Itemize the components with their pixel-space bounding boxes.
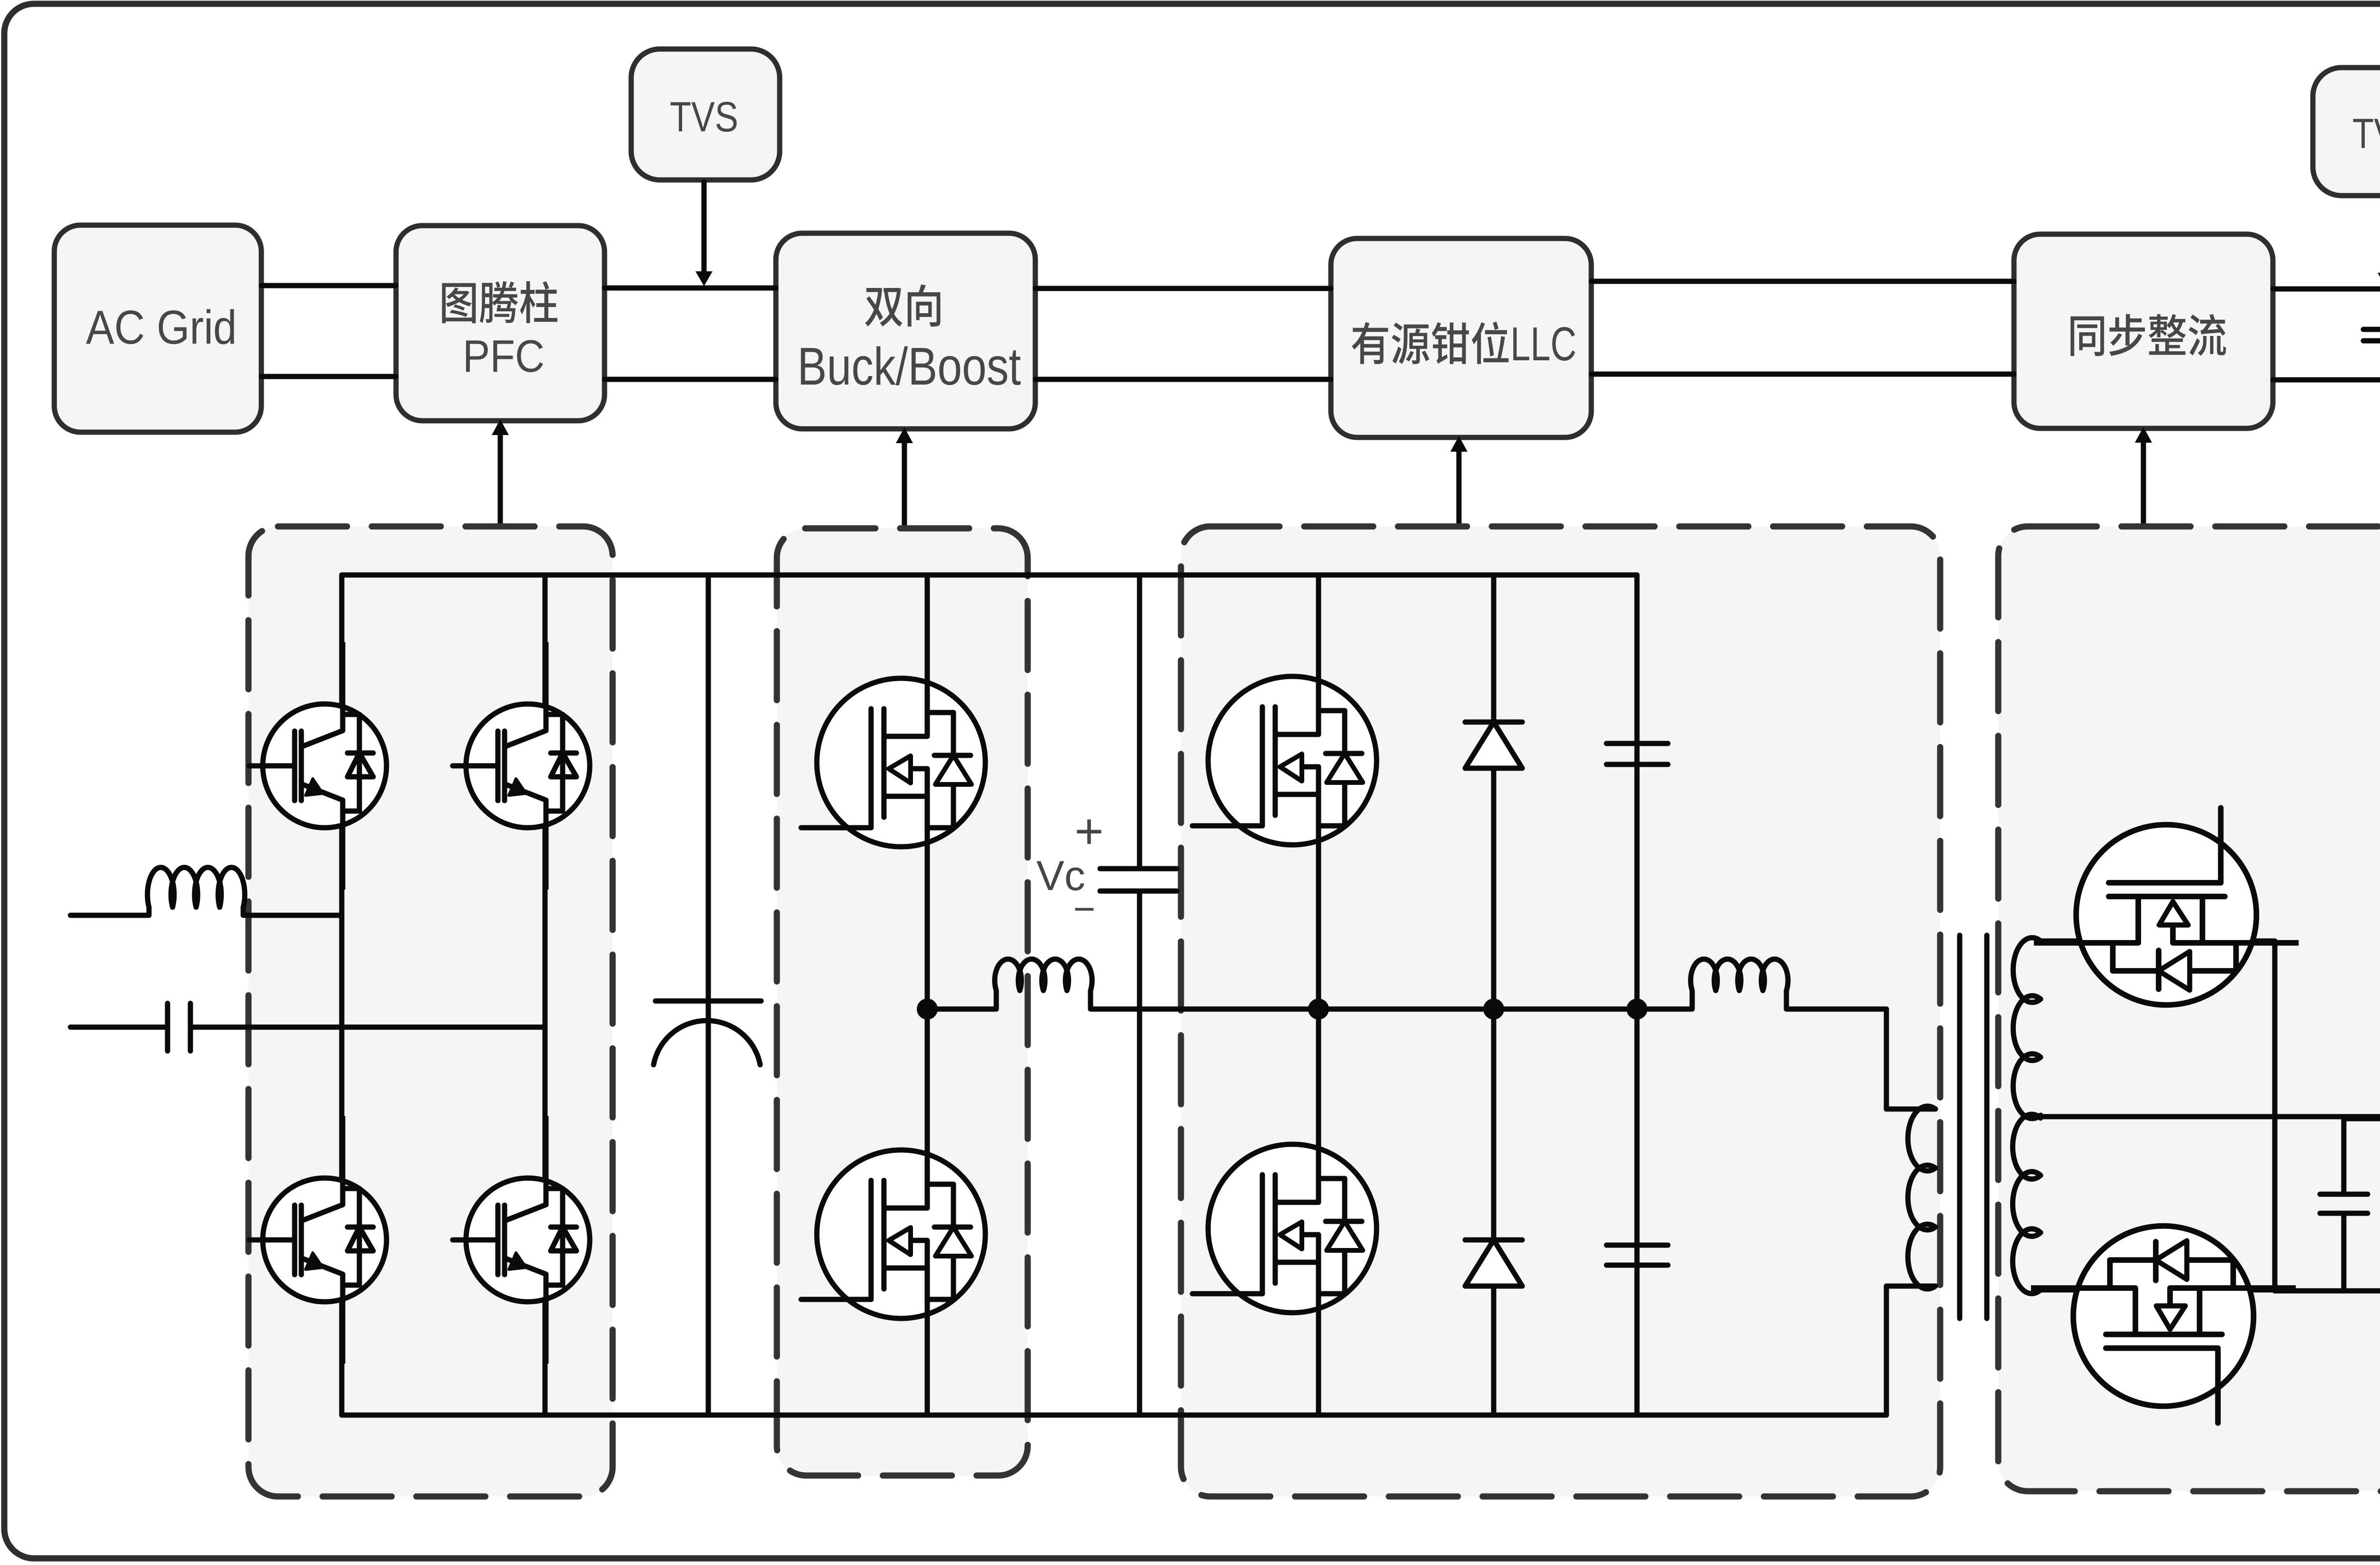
- transformer secondary winding top: [2013, 938, 2041, 1119]
- arrow TVS1 to bus: [702, 180, 707, 273]
- wire LLC switch leg: [1316, 575, 1321, 1415]
- svg-text:+: +: [1074, 803, 1103, 859]
- arrow LLC detail to block: [1457, 450, 1462, 529]
- wire PFC to Buck/Boost top: [605, 286, 776, 291]
- capacitor AC input C1: [70, 1025, 168, 1030]
- wire Buck/Boost to LLC bottom: [1035, 377, 1331, 382]
- wire AC Grid to PFC bottom: [261, 374, 396, 379]
- transistor MOSFET Q9 (SR top-left): [2034, 808, 2299, 1005]
- dashed box totem-pole PFC detail: [248, 526, 613, 1496]
- wire PFC right leg: [543, 575, 548, 1415]
- diode clamp D2: [1465, 1238, 1522, 1243]
- capacitor clamp C2: [1635, 575, 1640, 743]
- arrow sync detail to block: [2141, 441, 2146, 527]
- block TVS 2: [2313, 68, 2380, 196]
- svg-text:TVS: TVS: [2352, 109, 2380, 157]
- label 有源钳位LLC: [1352, 322, 1508, 364]
- wire AC Grid to PFC top: [261, 283, 396, 288]
- block active clamp LLC: [1331, 238, 1591, 437]
- wire M1 drain drop: [2272, 941, 2278, 1291]
- wire secondary mid rail: [2041, 1114, 2380, 1119]
- dashed box Buck/Boost detail: [777, 528, 1028, 1476]
- block synchronous rectifier: [2014, 234, 2273, 428]
- wire primary return: [1886, 1284, 1935, 1289]
- transistor IGBT Q4 (PFC bottom-right): [453, 1116, 590, 1364]
- wire secondary bottom to M2: [2041, 1288, 2275, 1293]
- svg-text:Buck/Boost: Buck/Boost: [797, 337, 1021, 396]
- transformer primary winding: [1908, 1106, 1935, 1289]
- wire Lr to transformer: [1786, 1007, 1886, 1012]
- wire Vc rail: [1137, 575, 1142, 869]
- wire secondary top to M1: [2041, 939, 2275, 944]
- block TVS 1: [631, 49, 780, 180]
- dashed box sync-rect detail: [1998, 526, 2380, 1491]
- svg-text:AC Grid: AC Grid: [86, 301, 237, 354]
- wire LLC diode leg: [1491, 575, 1497, 1415]
- wire Buck/Boost to LLC top: [1035, 286, 1331, 291]
- wire PFC to Buck/Boost bottom: [605, 377, 776, 382]
- node LLC cap junction: [1626, 999, 1647, 1020]
- wire Buck/Boost leg: [925, 575, 930, 1415]
- wire top DC bus: [342, 573, 1637, 578]
- wire sync-rect to battery top: [2273, 287, 2380, 292]
- capacitor clamp C3: [1606, 1243, 1668, 1248]
- transformer core: [1957, 935, 1963, 1318]
- capacitor Vc clamp: [1100, 866, 1177, 872]
- inductor resonant Lr: [1691, 959, 1788, 991]
- label 同步整流: [2071, 314, 2226, 356]
- transistor MOSFET Q7 (LLC high-side): [1192, 637, 1377, 884]
- wire LLC cap leg: [1635, 575, 1640, 1415]
- block bidirectional Buck/Boost: [776, 233, 1035, 429]
- svg-text:−: −: [1073, 888, 1096, 930]
- transistor IGBT Q2 (PFC top-right): [453, 642, 590, 890]
- wire output bottom: [2275, 1288, 2380, 1294]
- transistor MOSFET Q5 (Buck high-side): [801, 639, 985, 886]
- block totem-pole PFC: [396, 226, 605, 421]
- inductor AC input L1: [70, 913, 149, 918]
- capacitor output filter: [2341, 1117, 2347, 1194]
- capacitor DC link (polarized): [706, 575, 711, 1001]
- node LLC switch junction: [1308, 999, 1329, 1020]
- dashed box LLC detail: [1181, 526, 1940, 1496]
- label 双向: [865, 285, 940, 327]
- svg-text:PFC: PFC: [463, 331, 545, 382]
- label 图腾柱: [442, 281, 557, 323]
- inductor Buck L2: [994, 991, 999, 1009]
- wire PFC left leg: [339, 575, 345, 1415]
- svg-text:TVS: TVS: [670, 93, 738, 140]
- svg-text:LLC: LLC: [1510, 317, 1577, 371]
- wire Buck mid to inductor: [927, 1007, 996, 1012]
- diode clamp D1: [1465, 720, 1522, 725]
- transistor IGBT Q1 (PFC top-left): [249, 642, 387, 890]
- transformer secondary winding bottom: [2013, 1114, 2041, 1294]
- wire LLC to sync-rect top: [1591, 279, 2014, 284]
- node LLC diode junction: [1483, 999, 1504, 1020]
- wire mid bus: [1091, 1007, 1692, 1012]
- transistor IGBT Q3 (PFC bottom-left): [249, 1116, 387, 1364]
- transistor MOSFET Q11 (SR mid): [2344, 983, 2380, 1180]
- transistor MOSFET Q6 (Buck low-side): [801, 1110, 985, 1358]
- transistor MOSFET Q8 (LLC low-side): [1192, 1105, 1377, 1352]
- wire bottom DC bus: [342, 1413, 1886, 1418]
- transistor MOSFET Q10 (SR bottom-left): [2031, 1226, 2296, 1423]
- node Buck midpoint junction: [917, 999, 938, 1020]
- arrow PFC detail to block: [498, 434, 503, 526]
- arrow Buck detail to block: [902, 442, 907, 529]
- block AC Grid: [54, 225, 261, 432]
- wire LLC to sync-rect bottom: [1591, 372, 2014, 377]
- wire sync-rect to battery bottom: [2273, 377, 2380, 383]
